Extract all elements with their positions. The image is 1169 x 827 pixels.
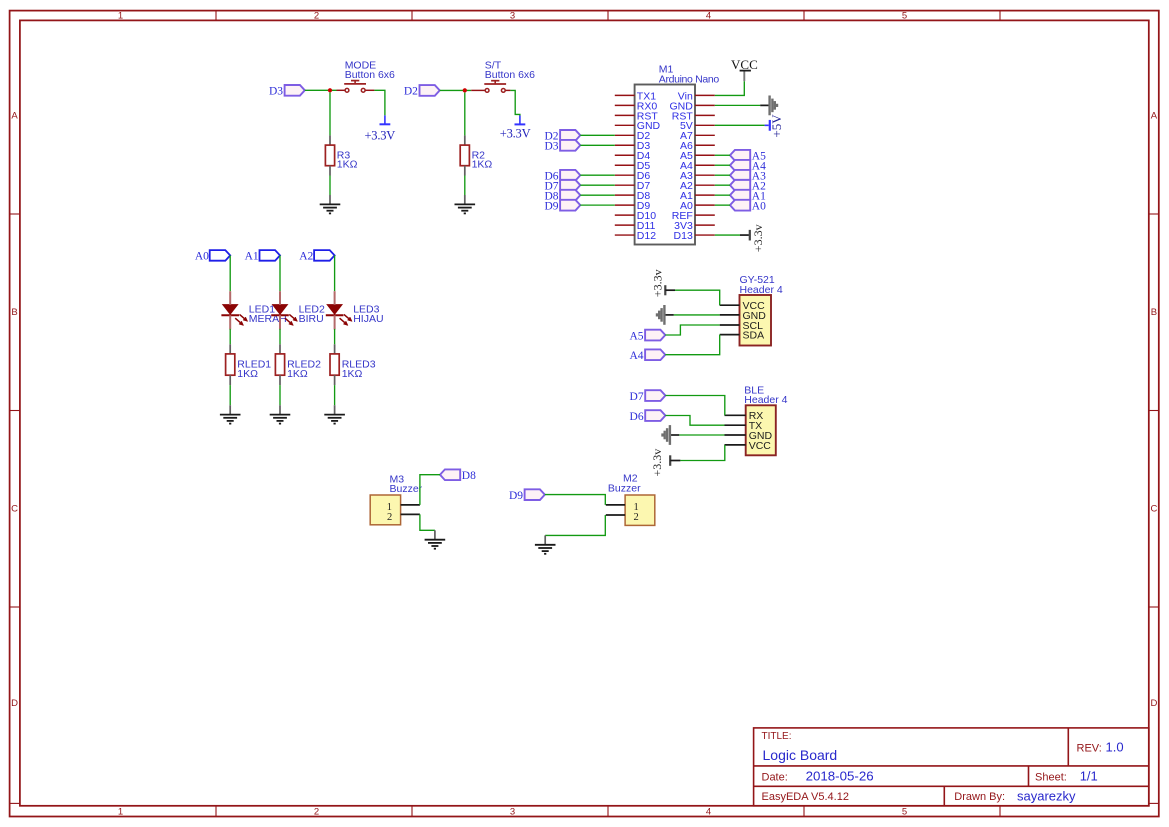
svg-text:C: C [1150,503,1157,514]
wire [715,234,740,236]
pin Vin [695,94,715,96]
svg-text:4: 4 [706,807,711,818]
wire [305,89,337,91]
pin D13 [695,234,715,236]
button S2 S/T Button 6x6 [471,89,485,91]
wire [545,495,606,505]
wire [229,329,231,344]
pin D6 [615,174,635,176]
svg-text:D2: D2 [404,86,418,98]
svg-text:2: 2 [314,11,319,22]
buzzer M3 [370,495,400,525]
ground [665,314,674,316]
wire [674,314,720,316]
net flag A2 [730,180,750,191]
net flag A0 [210,250,231,261]
net flag D7 [560,180,580,191]
net flag D3 [560,140,580,151]
power +3.3v [669,455,671,466]
wire [580,184,615,186]
svg-text:SDA: SDA [743,330,765,342]
wire [715,184,730,186]
wire [580,174,615,176]
svg-text:VCC: VCC [749,440,772,452]
pin D12 [615,234,635,236]
pin SCL [720,324,740,326]
svg-text:+3.3v: +3.3v [650,449,664,477]
svg-text:+3.3V: +3.3V [364,129,395,143]
wire [464,93,466,136]
svg-text:5: 5 [902,807,907,818]
ground [279,405,281,414]
svg-text:REV:: REV: [1077,743,1102,755]
wire [715,124,765,126]
net flag D2 [560,130,580,141]
wire [464,176,466,196]
power VCC [743,71,745,81]
wire [665,416,724,426]
svg-text:+5V: +5V [769,114,784,138]
svg-text:2018-05-26: 2018-05-26 [806,769,874,784]
wire [580,134,615,136]
svg-text:1KΩ: 1KΩ [337,159,358,171]
wire [680,445,724,461]
net flag A3 [730,170,750,181]
pin SDA [720,334,740,336]
wire [715,174,730,176]
buzzer M2 [625,495,655,525]
wire [665,335,719,355]
net flag A1 [730,190,750,201]
svg-text:+3.3v: +3.3v [651,269,665,297]
pin RX0 [615,104,635,106]
svg-text:D3: D3 [544,141,558,153]
pin GND [615,124,635,126]
pin 1 [606,504,625,506]
svg-text:A4: A4 [629,350,643,362]
wire [715,104,760,106]
svg-text:D: D [1150,698,1157,709]
power +3.3V [384,115,386,123]
svg-text:D9: D9 [509,490,523,502]
net flag D9 [560,200,580,211]
pin A0 [695,204,715,206]
wire [715,164,730,166]
resistor RLED3 1K [334,344,336,354]
net flag D8 [440,469,460,480]
svg-text:A5: A5 [629,330,643,342]
connector BLE Header 4 [746,405,776,455]
pin TX1 [615,94,635,96]
ground [760,104,769,106]
wire [675,290,720,305]
LED LED1 MERAH [223,305,237,314]
svg-text:Header 4: Header 4 [740,284,783,296]
resistor R3 1K [329,135,331,145]
ground [544,535,546,544]
wire [510,90,520,115]
pin D7 [615,184,635,186]
wire [580,194,615,196]
svg-text:D3: D3 [269,86,283,98]
svg-text:Sheet:: Sheet: [1035,771,1067,783]
pin D2 [615,134,635,136]
wire [279,255,281,291]
svg-text:D6: D6 [630,411,644,423]
pin RX [725,414,746,416]
wire [715,204,730,206]
pin D8 [615,194,635,196]
svg-text:B: B [11,307,17,318]
pin 2 [401,513,420,515]
svg-text:EasyEDA V5.4.12: EasyEDA V5.4.12 [762,791,849,803]
svg-text:1KΩ: 1KΩ [237,368,258,380]
LED LED3 HIJAU [327,305,341,314]
wire [229,255,231,291]
pin D5 [615,164,635,166]
power +3.3v [664,285,666,295]
net flag A4 [645,349,665,360]
wire [440,89,472,91]
svg-text:1/1: 1/1 [1080,769,1098,784]
pin RST [615,114,635,116]
net flag A4 [730,160,750,171]
wire [279,385,281,405]
svg-text:A: A [1151,110,1158,121]
net flag A5 [730,150,750,161]
wire [715,154,730,156]
wire [329,176,331,196]
pin TX [725,424,746,426]
power +5V [765,124,769,126]
svg-text:D12: D12 [637,230,656,242]
pin VCC [725,444,746,446]
wire [580,144,615,146]
svg-text:2: 2 [634,512,639,523]
svg-text:Arduino Nano: Arduino Nano [659,74,720,86]
wire [715,81,745,95]
wire [420,514,435,530]
pin GND [725,434,746,436]
resistor RLED1 1K [229,344,231,354]
svg-text:Date:: Date: [762,771,788,783]
svg-text:TITLE:: TITLE: [762,731,792,742]
net flag D6 [645,410,665,421]
junction [463,88,467,92]
pin 5V [695,124,715,126]
net flag D8 [560,190,580,201]
pin A4 [695,164,715,166]
wire [334,385,336,405]
svg-text:Logic Board: Logic Board [763,747,838,763]
pin VCC [720,304,740,306]
svg-text:D9: D9 [544,200,558,212]
svg-text:B: B [1151,307,1157,318]
net flag D7 [645,390,665,401]
svg-text:2: 2 [387,512,392,523]
svg-text:Buzzer: Buzzer [390,483,423,495]
svg-text:1KΩ: 1KΩ [287,368,308,380]
pin D11 [615,224,635,226]
wire [679,434,724,436]
wire [580,204,615,206]
wire [374,90,385,115]
wire [229,385,231,405]
net flag D9 [525,489,545,500]
pin A6 [695,144,715,146]
svg-text:sayarezky: sayarezky [1017,788,1076,803]
svg-text:2: 2 [314,807,319,818]
svg-text:1: 1 [118,11,123,22]
net flag A2 [314,250,335,261]
net flag D2 [420,85,440,96]
connector GY-521 Header 4 [740,295,772,346]
svg-text:Buzzer: Buzzer [608,483,641,495]
power +3.3V [519,116,521,124]
pin A7 [695,134,715,136]
svg-text:BIRU: BIRU [299,313,324,325]
svg-text:Button 6x6: Button 6x6 [345,69,395,81]
svg-text:Drawn By:: Drawn By: [954,791,1005,803]
ground [329,195,331,204]
pin D4 [615,154,635,156]
svg-text:C: C [11,503,18,514]
svg-text:A0: A0 [195,251,209,263]
svg-text:A2: A2 [299,251,313,263]
pin A3 [695,174,715,176]
wire [715,194,730,196]
wire [334,329,336,344]
svg-text:1: 1 [118,807,123,818]
svg-text:Header 4: Header 4 [744,394,787,406]
ground [464,195,466,204]
ground [229,405,231,414]
pin A2 [695,184,715,186]
pin RST [695,114,715,116]
wire [665,396,724,416]
pin 2 [606,514,625,516]
svg-text:3: 3 [510,11,515,22]
resistor R2 1K [464,135,466,145]
pin A1 [695,194,715,196]
wire [329,93,331,136]
pin 1 [401,504,420,506]
wire [334,255,336,291]
pin GND [695,104,715,106]
ground [334,405,336,414]
svg-text:1KΩ: 1KΩ [472,159,493,171]
pin D9 [615,204,635,206]
svg-text:D8: D8 [462,470,476,482]
pin D3 [615,144,635,146]
svg-text:D13: D13 [674,230,693,242]
resistor RLED2 1K [279,344,281,354]
svg-text:3: 3 [510,807,515,818]
wire [545,515,605,535]
svg-text:+3.3V: +3.3V [500,126,531,140]
pin 3V3 [695,224,715,226]
svg-text:D7: D7 [630,391,644,403]
junction [328,88,332,92]
pin REF [695,214,715,216]
svg-text:4: 4 [706,11,711,22]
svg-text:D: D [11,698,18,709]
button S1 MODE Button 6x6 [337,89,345,91]
net flag A0 [730,200,750,211]
wire [665,325,719,335]
pin D10 [615,214,635,216]
wire [420,475,440,505]
wire [279,329,281,344]
IC M1 Arduino Nano [635,85,695,245]
svg-text:Button 6x6: Button 6x6 [485,69,535,81]
svg-text:1KΩ: 1KΩ [342,368,363,380]
ground [434,530,436,539]
pin A5 [695,154,715,156]
svg-text:HIJAU: HIJAU [353,313,383,325]
net flag A5 [645,330,665,341]
svg-text:5: 5 [902,11,907,22]
net flag D3 [285,85,305,96]
svg-text:A0: A0 [752,200,766,212]
svg-text:A: A [11,110,18,121]
pin GND [720,314,740,316]
svg-text:A1: A1 [245,251,259,263]
svg-text:VCC: VCC [731,57,758,72]
LED LED2 BIRU [273,305,287,314]
ground [670,434,679,436]
power +3.3v [740,234,749,236]
net flag A1 [260,250,281,261]
svg-text:+3.3v: +3.3v [751,224,765,252]
svg-text:1.0: 1.0 [1106,740,1124,755]
net flag D6 [560,170,580,181]
